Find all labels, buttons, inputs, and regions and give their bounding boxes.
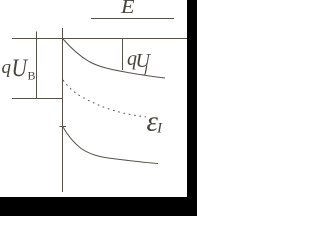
svg-text:B: B: [28, 69, 36, 83]
wire tick on main vertical: [60, 126, 67, 128]
wire qUB dimension bottom cap: [12, 98, 62, 100]
black bottom bar (padding): [0, 197, 197, 216]
curve 3 (lower band curve): [63, 127, 158, 164]
svg-text:I: I: [156, 121, 163, 137]
wire main vertical line: [62, 28, 64, 192]
wire qUj tick: [122, 39, 124, 70]
svg-text:E: E: [120, 0, 135, 18]
black right bar (padding): [187, 0, 197, 216]
svg-text:q: q: [2, 57, 12, 78]
curve 1 (upper band curve): [63, 39, 165, 78]
wire E level line: [91, 18, 174, 20]
wire qUB dimension vertical: [36, 32, 38, 100]
curve 2 dotted (image potential): [63, 80, 146, 117]
wire long horizontal line: [12, 38, 187, 40]
svg-text:U: U: [12, 55, 29, 82]
